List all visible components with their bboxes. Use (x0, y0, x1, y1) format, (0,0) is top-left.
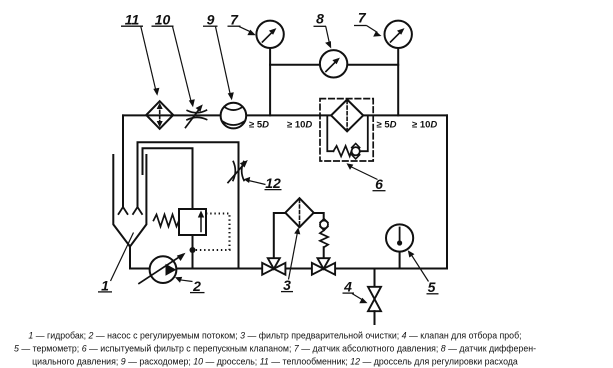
label 12 leader (249, 181, 266, 185)
svg-text:3: 3 (283, 277, 291, 293)
bypass valve spring (box 6) (333, 146, 351, 156)
label 4 leader (352, 294, 364, 301)
wire: bypass loop inside box 6 (327, 115, 333, 151)
svg-text:циального давления; 9 — расход: циального давления; 9 — расходомер; 10 —… (32, 356, 518, 366)
throttle DR12 (дроссель регулировки) on vertical line (228, 160, 248, 183)
three-way valve K3a (left) (262, 258, 285, 275)
pump flow triangle (filled) (166, 264, 177, 276)
svg-text:5: 5 (428, 279, 436, 295)
heat exchanger HE11 diamond (146, 101, 173, 129)
label 8 leader (326, 26, 330, 43)
label 9 leader (216, 27, 231, 96)
relief valve pilot dotted line (194, 214, 230, 251)
svg-text:12: 12 (265, 175, 281, 191)
flow meter FM9 (расходомер) (221, 103, 247, 129)
label 7a leader (239, 26, 251, 31)
wire: right vertical line x=447 (446, 115, 448, 268)
wire: gauge stem right x=398 (397, 48, 399, 115)
relief valve V1 square (179, 209, 206, 235)
differential gauge P8 (320, 50, 347, 77)
three-way valve K3b (right) (312, 258, 335, 275)
svg-text:≥ 10D: ≥ 10D (287, 119, 312, 130)
pressure gauge P7a (датчик давления) (256, 21, 283, 48)
svg-text:≥ 10D: ≥ 10D (412, 119, 437, 130)
label 7b leader (367, 26, 378, 33)
wire: thermometer stub (399, 252, 401, 269)
bypass valve ball (box 6) (352, 147, 360, 155)
relief valve spring (154, 215, 180, 227)
wire: throttle-12 return line y=142.2 (138, 142, 239, 268)
wire: top main line y=115.4 from x=123 to x=447 (123, 114, 447, 116)
throttle DR10 (дроссель) on main line (186, 104, 207, 127)
wire: below sampling valve (374, 311, 376, 324)
test filter F6 diamond (331, 100, 363, 132)
svg-text:4: 4 (343, 279, 352, 295)
test filter F6 internal dashed line (346, 101, 348, 131)
leader lines and callout labels (111, 26, 429, 304)
filter F3 diamond (285, 198, 313, 227)
svg-text:2: 2 (192, 278, 201, 294)
check valve spring (branch 3) (320, 230, 328, 247)
tank T1 (гидробак) (113, 155, 146, 269)
wire: gauge stem left x=270 (269, 48, 271, 115)
wire: tank return pipe A (x=123) (122, 115, 124, 207)
svg-text:≥ 5D: ≥ 5D (249, 119, 269, 130)
sampling valve K4 bowtie (368, 287, 381, 311)
label 6 leader (351, 167, 378, 180)
label 10 leader (173, 26, 192, 103)
heat exchanger internal dashed arrow (157, 103, 163, 128)
svg-text:10: 10 (155, 11, 171, 27)
svg-text:8: 8 (316, 11, 324, 27)
svg-text:9: 9 (207, 11, 215, 27)
dashed box of test filter 6 (320, 99, 373, 161)
relief valve internal arrow (198, 211, 204, 232)
label 2 leader (180, 280, 193, 282)
label 3 leader (289, 232, 298, 280)
check valve ball (branch 3) (320, 221, 328, 229)
pump variable-arrow (139, 253, 186, 284)
check valve seat (branch 3) (320, 219, 328, 231)
pipe A outlet arrow V (119, 207, 128, 214)
wire: spring to valve stub (323, 247, 325, 258)
svg-text:1: 1 (101, 278, 109, 294)
svg-text:≥ 5D: ≥ 5D (377, 119, 397, 130)
svg-text:6: 6 (375, 176, 383, 192)
bypass valve seat (box 6) (352, 144, 360, 159)
wire: bypass of filter 3 right branch (314, 213, 324, 219)
thermometer TH5 (386, 224, 413, 251)
svg-text:11: 11 (125, 11, 140, 27)
wire: bypass of filter 3 left branch (274, 213, 287, 258)
junction dot on relief line (190, 247, 196, 253)
wire: sampling valve stub (374, 269, 376, 287)
wire: relief-valve return line y=148.3 (143, 148, 193, 209)
svg-text:7: 7 (230, 11, 239, 27)
pump M1 (насос) circle (150, 256, 177, 283)
svg-text:1 — гидробак; 2 — насос с регу: 1 — гидробак; 2 — насос с регулируемым п… (28, 331, 521, 341)
pipe B outlet arrow V (133, 207, 142, 214)
label 11 leader (141, 27, 156, 92)
label 5 leader (411, 254, 429, 282)
svg-text:7: 7 (358, 10, 367, 26)
wire: bottom main line y=268.5 (131, 268, 448, 270)
wire: differential gauge line y=64.8 (270, 64, 398, 66)
svg-text:5 — термометр; 6 — испытуемый: 5 — термометр; 6 — испытуемый фильтр с п… (14, 343, 536, 353)
filter F3 internal dashed line (299, 199, 301, 226)
wire: relief valve to pump output line (192, 235, 194, 269)
label 1 leader (111, 233, 134, 282)
pressure gauge P7b (385, 21, 412, 48)
